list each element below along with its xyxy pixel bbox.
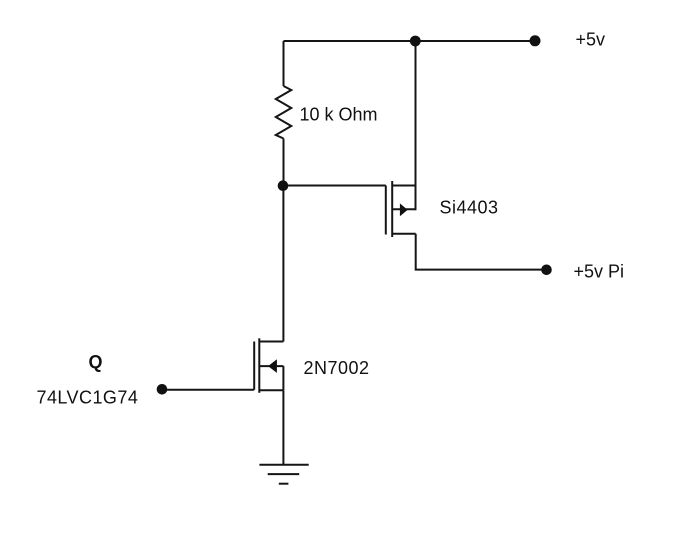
wire +5v rail junction down to Si4403 source (415, 41, 417, 210)
svg-text:+5v Pi: +5v Pi (574, 261, 625, 281)
svg-text:Q: Q (89, 352, 103, 372)
wire 2N7002 source down to ground (282, 390, 284, 465)
transistor Q1 2N7002 n-channel mosfet (254, 338, 283, 393)
transistor U1 Si4403 p-channel mosfet (386, 181, 416, 237)
ground (259, 465, 308, 484)
wire 2N7002 gate lead (162, 389, 254, 391)
wire gate node down to 2N7002 drain (282, 186, 284, 342)
node terminal dot +5v (530, 35, 541, 46)
wire top +5v rail (284, 40, 536, 42)
arrow on 2N7002 body lead (268, 359, 277, 373)
node junction dot gate node (278, 180, 289, 191)
node terminal dot gate input (157, 384, 168, 395)
svg-text:+5v: +5v (576, 30, 606, 50)
wire Si4403 drain to +5v Pi terminal (416, 234, 542, 270)
resistor R1 10 k Ohm zigzag (276, 86, 292, 139)
svg-text:10 k Ohm: 10 k Ohm (300, 105, 378, 125)
svg-text:2N7002: 2N7002 (304, 358, 370, 378)
wire gate node to Si4403 gate (284, 185, 386, 187)
svg-text:74LVC1G74: 74LVC1G74 (37, 388, 139, 408)
wire left vertical rail to resistor (283, 41, 285, 86)
node junction dot top rail (410, 36, 421, 47)
arrow on Si4403 body lead (400, 203, 408, 216)
svg-text:Si4403: Si4403 (440, 198, 499, 218)
node terminal dot +5v Pi (541, 265, 552, 276)
wire resistor bottom to gate node (283, 139, 285, 186)
